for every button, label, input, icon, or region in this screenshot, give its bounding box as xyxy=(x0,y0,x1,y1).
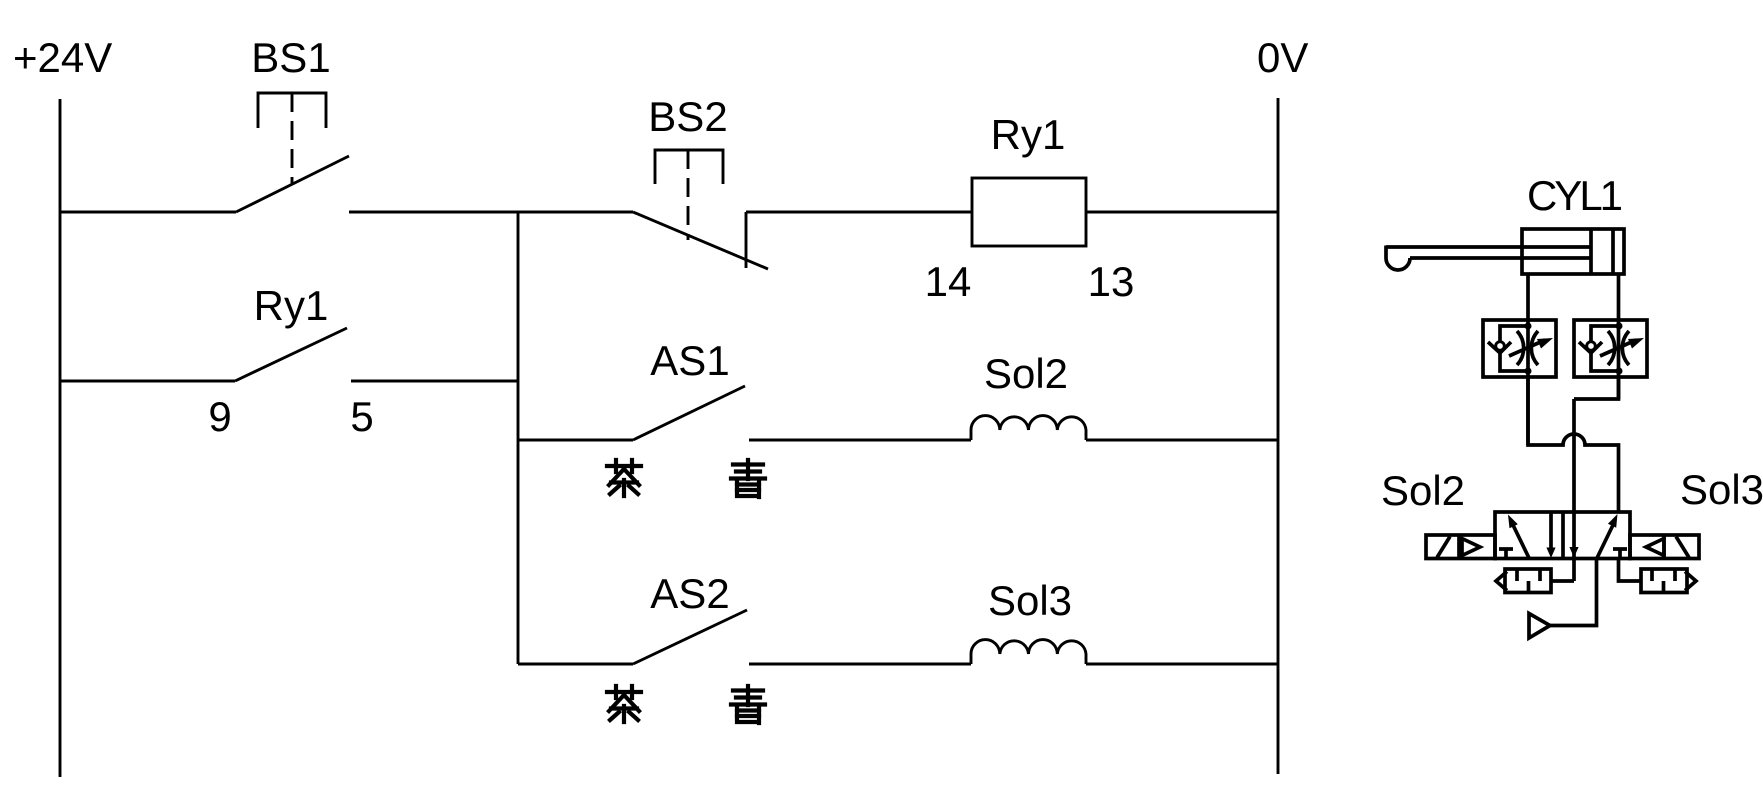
valve divider xyxy=(1561,512,1565,559)
svg-text:Sol3: Sol3 xyxy=(988,577,1072,624)
svg-text:AS1: AS1 xyxy=(650,337,729,384)
svg-text:BS1: BS1 xyxy=(251,34,330,81)
solenoid Sol2 box xyxy=(1426,535,1495,559)
wire rung4 middle xyxy=(749,663,971,666)
detent left box xyxy=(1505,569,1551,593)
wire cylinder right port to speed controller xyxy=(1617,274,1621,399)
switch BS2 right terminal xyxy=(745,212,748,268)
check valve SC2 ball xyxy=(1587,342,1596,351)
solenoid coil Sol2 (ladder) xyxy=(971,416,1086,440)
solenoid Sol3 pilot triangle xyxy=(1646,539,1664,556)
cylinder CYL1 rod xyxy=(1386,247,1591,258)
svg-text:+24V: +24V xyxy=(13,34,112,81)
check valve SC2 seat xyxy=(1579,342,1602,353)
wire rung3 middle xyxy=(749,439,971,442)
pushbutton BS2 actuator dashed link xyxy=(687,150,690,240)
wire pilot line down through valve xyxy=(1572,399,1576,581)
check valve SC2 bypass xyxy=(1591,326,1619,371)
svg-text:Ry1: Ry1 xyxy=(991,111,1066,158)
wire rung1 left xyxy=(60,211,236,214)
wire coil to right rail xyxy=(1086,211,1278,214)
throttle SC2 arrow xyxy=(1600,340,1636,356)
throttle SC1 arrow xyxy=(1509,340,1545,356)
relay coil Ry1 xyxy=(972,178,1086,246)
svg-text:13: 13 xyxy=(1088,258,1135,305)
svg-text:Ry1: Ry1 xyxy=(254,282,329,329)
throttle SC2 arcs xyxy=(1608,331,1629,365)
valve left box diagonal flow arrow xyxy=(1513,525,1529,558)
switch AS2 blade xyxy=(633,610,747,664)
wire rung3 right xyxy=(1086,439,1278,442)
check valve SC1 seat xyxy=(1488,342,1511,353)
label AS1 wire blue xyxy=(731,460,765,497)
valve right box diagonal flow arrow xyxy=(1597,525,1613,558)
svg-text:9: 9 xyxy=(208,393,231,440)
node SC2 top junction xyxy=(1616,323,1623,330)
exhaust triangle xyxy=(1529,614,1550,639)
wire SC1 to valve with hump over pilot line xyxy=(1528,377,1619,512)
solenoid Sol3 slash xyxy=(1676,537,1689,558)
solenoid Sol2 slash xyxy=(1437,537,1450,558)
valve right box blocked port T xyxy=(1613,549,1627,559)
svg-text:14: 14 xyxy=(925,258,972,305)
wire rung1 to coil xyxy=(746,211,972,214)
svg-text:Sol2: Sol2 xyxy=(984,350,1068,397)
detent left arrowhead xyxy=(1496,572,1507,591)
throttle SC1 arcs xyxy=(1517,331,1538,365)
wire right detent stub xyxy=(1619,559,1642,582)
switch BS1 contact blade xyxy=(236,156,349,212)
label AS2 wire brown xyxy=(607,686,641,722)
node SC1 top junction xyxy=(1525,323,1532,330)
wire rung3 left xyxy=(518,439,633,442)
check valve SC1 bypass xyxy=(1500,326,1528,371)
wire cylinder left port to speed controller xyxy=(1526,274,1530,445)
svg-text:Sol2: Sol2 xyxy=(1381,467,1465,514)
pushbutton BS1 actuator dashed link xyxy=(291,93,294,184)
speed controller SC2 body xyxy=(1574,320,1647,377)
valve left box straight flow arrow xyxy=(1549,512,1553,548)
valve 5/2 body xyxy=(1495,512,1630,559)
label AS2 wire blue xyxy=(731,686,765,723)
wire exhaust xyxy=(1550,559,1597,626)
detent right box xyxy=(1641,569,1687,593)
valve left box blocked port T xyxy=(1499,549,1513,559)
speed controller SC1 body xyxy=(1483,320,1556,377)
wire rung4 right xyxy=(1086,663,1278,666)
wire right rail 0V xyxy=(1277,98,1280,774)
svg-text:0V: 0V xyxy=(1257,34,1308,81)
wire rung2 right xyxy=(351,380,518,383)
cylinder CYL1 body xyxy=(1522,229,1624,274)
solenoid Sol2 pilot triangle xyxy=(1462,539,1480,556)
wire left detent to pilot line xyxy=(1551,579,1574,583)
node SC1 bottom junction xyxy=(1525,368,1532,375)
node SC2 bottom junction xyxy=(1616,368,1623,375)
switch BS2 contact blade (NC) xyxy=(633,212,768,269)
relay contact Ry1 blade xyxy=(235,328,347,381)
wire rung1 middle xyxy=(349,211,633,214)
svg-text:CYL1: CYL1 xyxy=(1527,172,1622,219)
switch AS1 blade xyxy=(633,386,745,440)
wire rung4 left xyxy=(518,663,633,666)
pushbutton BS2 actuator bracket xyxy=(655,150,723,184)
label AS1 wire brown xyxy=(607,460,641,496)
svg-text:5: 5 xyxy=(350,393,373,440)
wire SC2 jog to pilot line xyxy=(1574,377,1619,399)
cylinder CYL1 rod tip xyxy=(1386,246,1410,271)
check valve SC1 ball xyxy=(1496,342,1505,351)
wire left rail +24V xyxy=(59,99,62,777)
wire rung2 left xyxy=(60,380,235,383)
solenoid Sol3 box xyxy=(1630,535,1699,559)
cylinder CYL1 piston xyxy=(1591,229,1613,274)
solenoid coil Sol3 (ladder) xyxy=(971,640,1086,664)
svg-text:AS2: AS2 xyxy=(650,570,729,617)
detent right arrowhead xyxy=(1685,572,1696,591)
pushbutton BS1 actuator bracket xyxy=(258,93,326,128)
wire junction vertical bus xyxy=(517,212,520,664)
svg-text:BS2: BS2 xyxy=(648,93,727,140)
valve right box pilot flow arrow xyxy=(1569,547,1578,558)
svg-text:Sol3: Sol3 xyxy=(1680,466,1763,513)
